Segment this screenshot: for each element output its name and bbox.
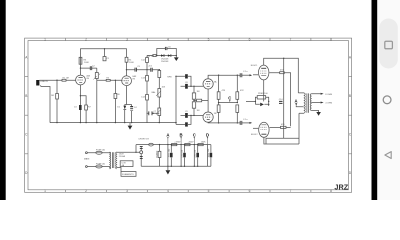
node V1 cathode: [80, 95, 81, 96]
svg-text:BLEED: BLEED: [156, 150, 158, 157]
svg-text:1N4148: 1N4148: [161, 61, 169, 63]
B+ rail top: [81, 49, 127, 58]
svg-text:1M: 1M: [51, 95, 54, 97]
wire mains: [87, 153, 109, 167]
diode D1 cathode: [123, 106, 126, 110]
wire to V2 grid: [97, 79, 123, 81]
capacitor C2 coupling: [90, 66, 91, 70]
cathode network box: [246, 97, 269, 106]
tube U2 EL84 lower: [259, 122, 269, 137]
wire coupling line stage2: [127, 69, 160, 71]
diode D4 cathode: [255, 103, 268, 105]
resistor R19 cathode: [257, 96, 266, 99]
capacitor C6 limiter bypass: [157, 49, 177, 56]
capacitor C8 grid coupling upper: [181, 85, 204, 87]
transformer T2 power primary: [109, 152, 112, 169]
phone right letterbox bar: [372, 0, 378, 200]
wire input to grid: [39, 79, 75, 81]
svg-text:B: B: [349, 94, 351, 98]
svg-text:FUSE 2A: FUSE 2A: [96, 162, 105, 165]
svg-text:LINE IN: LINE IN: [40, 81, 48, 83]
capacitor C3 cathode bypass: [79, 105, 82, 110]
resistor R5 V2 grid stopper: [106, 79, 110, 81]
capacitor C18 column: [146, 95, 149, 101]
net arrows under letters: [167, 137, 168, 139]
wire nfb return loop: [266, 138, 299, 144]
node B vertical: [180, 145, 182, 167]
wire transformer bottom: [298, 113, 300, 144]
svg-text:B: B: [180, 133, 183, 138]
capacitor C12 node A: [170, 153, 173, 158]
svg-text:160K: 160K: [201, 142, 206, 144]
capacitor C20 on lower nfb line: [176, 115, 191, 124]
resistor R14a right column upper: [236, 75, 238, 123]
cap leg D: [208, 145, 211, 167]
transformer T1 core: [307, 93, 309, 112]
mains terminal L: [86, 152, 88, 154]
svg-text:47u 450: 47u 450: [182, 149, 184, 157]
node input junction: [56, 80, 57, 81]
svg-text:250VA: 250VA: [119, 155, 126, 158]
capacitor C16 column: [146, 58, 149, 63]
potentiometer VR1 volume: [96, 68, 98, 80]
capacitor C11b: [140, 156, 143, 158]
node V2 anode: [126, 69, 127, 70]
node D vertical: [207, 145, 209, 167]
frame left ticks: [25, 77, 28, 154]
wire EL84 plate rail: [264, 58, 299, 93]
wire secondary to rectifier: [117, 151, 140, 153]
arrow 8 ohm tap: [321, 93, 324, 95]
cap leg C: [197, 145, 199, 167]
svg-text:1M: 1M: [197, 91, 200, 93]
ground symbol PSU: [167, 166, 169, 170]
frame outer border: [25, 38, 352, 192]
svg-text:JRZ: JRZ: [334, 183, 348, 192]
wire secondary taps: [311, 94, 320, 112]
transformer T1 secondary: [310, 94, 311, 111]
resistor R20 bleeder: [159, 145, 161, 167]
svg-text:CHGRT 1R: CHGRT 1R: [138, 139, 149, 141]
node C vertical: [193, 145, 195, 167]
svg-text:C: C: [193, 133, 196, 138]
resistor R2 grid leak: [56, 80, 58, 122]
phone nav bar background: [377, 0, 400, 200]
svg-text:22u 450: 22u 450: [195, 149, 197, 157]
rectifier column: [140, 146, 142, 166]
cap leg A: [170, 145, 172, 167]
net labels A B C D: [166, 133, 209, 138]
resistor R11c cathode bias: [193, 100, 194, 101]
nav pill highlight: [379, 19, 398, 69]
wire driver cathodes: [207, 89, 209, 112]
feedback column wire: [175, 76, 177, 124]
ground symbol secondary: [316, 112, 321, 116]
svg-text:100u 450: 100u 450: [208, 148, 210, 158]
node V1 anode: [80, 67, 81, 68]
svg-text:D: D: [206, 133, 209, 138]
wire screens: [269, 73, 290, 128]
capacitor C9 grid coupling lower: [181, 114, 204, 116]
svg-text:10K: 10K: [162, 86, 166, 88]
svg-text:230V: 230V: [119, 154, 124, 156]
nav home circle icon: [383, 96, 391, 104]
svg-text:6: 6: [249, 189, 251, 193]
resistor R17 screen upper: [280, 72, 285, 74]
tube V1 triode: [76, 75, 86, 85]
filaments label box: [121, 172, 136, 177]
svg-text:NFB: NFB: [167, 77, 172, 79]
node rail tap: [104, 48, 105, 49]
frame bottom ticks: [66, 190, 311, 193]
capacitor C13 node B: [183, 153, 186, 158]
frame zone numbers top: [44, 37, 332, 41]
wire coupling line stage1: [81, 67, 97, 69]
wire pot ground leg: [96, 80, 98, 122]
tube V2 triode: [122, 76, 132, 86]
node bus junctions: [56, 122, 57, 123]
svg-text:3: 3: [126, 189, 128, 193]
filament info box: [120, 161, 133, 167]
wire secondary filament: [117, 168, 121, 172]
choke L1: [149, 143, 154, 146]
ground bus preamp: [50, 122, 176, 124]
resistor R1 grid stopper: [62, 79, 66, 81]
capacitor C5b coupling: [151, 68, 152, 72]
frame top ticks: [66, 38, 311, 41]
svg-text:PRES 100: PRES 100: [258, 93, 269, 95]
tiny value labels: [40, 47, 332, 177]
frame zone letters left: [25, 56, 28, 176]
svg-text:EL84 2: EL84 2: [251, 134, 258, 136]
filter rail: [141, 145, 211, 167]
svg-text:2: 2: [85, 189, 87, 193]
wire V1 cathode network: [80, 85, 86, 123]
frame inner border: [28, 41, 349, 190]
transformer T1 output primary: [298, 93, 304, 113]
capacitor C7 tap: [147, 112, 160, 114]
diode limiter subcircuit: [147, 55, 176, 57]
svg-text:SAFE R: SAFE R: [147, 55, 155, 58]
ground symbol limiter: [175, 56, 177, 58]
nav recents square icon: [385, 41, 393, 49]
transformer T2 secondary: [115, 152, 118, 169]
wire jack sleeve down: [41, 85, 51, 122]
resistor R3 plate load V1: [79, 57, 82, 64]
limiter column wire: [146, 56, 148, 123]
frame right ticks: [349, 77, 352, 154]
svg-text:+330V: +330V: [174, 142, 181, 144]
svg-text:+320V: +320V: [188, 142, 195, 144]
svg-text:100K: 100K: [129, 62, 134, 64]
tube U1 EL84 upper: [259, 65, 269, 80]
svg-text:5: 5: [208, 189, 210, 193]
svg-text:7: 7: [290, 189, 292, 193]
node coupling to limiter column: [146, 69, 147, 70]
node plate line dots: [218, 75, 219, 76]
capacitor C21 coupling to upper EL84: [240, 73, 242, 77]
wire driver plates: [208, 75, 240, 123]
capacitor C15 node D: [210, 153, 213, 158]
svg-text:100u 400: 100u 400: [168, 148, 170, 158]
capacitor C14 node C: [196, 153, 199, 158]
wire cathode upper EL84: [263, 80, 265, 102]
svg-text:47K: 47K: [240, 90, 244, 92]
svg-text:MAIN: MAIN: [84, 157, 90, 160]
input jack J1: [36, 80, 39, 86]
capacitor C17 column: [146, 76, 149, 82]
node C supply wire: [219, 102, 238, 104]
svg-text:A: A: [166, 133, 169, 138]
svg-text:7: 7: [290, 37, 292, 41]
resistor R22 B-C: [185, 144, 190, 146]
svg-text:1M: 1M: [197, 110, 200, 112]
svg-text:5: 5: [208, 37, 210, 41]
svg-text:1: 1: [44, 37, 46, 41]
arrow 4 ohm tap: [321, 102, 324, 104]
node dots filter: [167, 144, 168, 145]
svg-text:8: 8: [330, 189, 332, 193]
node grid junctions: [193, 86, 194, 87]
frame zone numbers bottom: [44, 189, 332, 193]
svg-text:4 OHM: 4 OHM: [325, 103, 332, 105]
diode D2: [161, 54, 164, 56]
svg-text:100K: 100K: [84, 62, 89, 64]
wire rail start: [136, 145, 149, 153]
fuse F1: [96, 151, 102, 154]
tube V3 driver upper: [203, 79, 213, 89]
svg-text:6: 6: [249, 37, 251, 41]
resistor R13 plate load lower left: [217, 105, 220, 113]
svg-text:4: 4: [167, 37, 169, 41]
cap leg B: [184, 145, 186, 167]
fuse F2: [96, 165, 102, 168]
resistor R21 A-B: [172, 144, 177, 146]
nav back triangle icon: [385, 152, 391, 159]
trimmer VR2: [158, 89, 161, 98]
wire V1 anode up: [80, 57, 82, 75]
tube V4 driver lower: [203, 112, 213, 122]
resistor R12 plate load upper left: [218, 75, 220, 123]
capacitor C19 on upper nfb line: [176, 76, 191, 86]
svg-text:47K: 47K: [222, 90, 226, 92]
resistor R23 C-D: [198, 144, 203, 146]
resistor R14b right column lower: [236, 105, 239, 113]
svg-text:2: 2: [85, 37, 87, 41]
wire cathode lower EL84: [264, 138, 299, 145]
svg-text:C: C: [228, 96, 231, 101]
resistor R11a grid leak upper: [193, 86, 195, 93]
capacitor C4 cathode V2: [130, 107, 133, 109]
svg-text:8: 8: [330, 37, 332, 41]
trimmer VR3: [158, 108, 161, 116]
capacitor C22 coupling to lower EL84: [240, 121, 242, 125]
capacitor C5 coupling: [135, 68, 136, 72]
rectifier circle: [140, 151, 143, 154]
diode D3: [168, 54, 171, 56]
wire V2 cathode: [125, 86, 132, 123]
transformer T2 core: [112, 152, 113, 168]
resistor R11b grid leak lower: [193, 99, 195, 115]
resistor R6 V2 grid leak: [114, 80, 116, 122]
svg-text:B: B: [25, 94, 27, 98]
svg-text:FILAMENTS: FILAMENTS: [122, 173, 134, 176]
ground symbol main: [129, 123, 131, 126]
resistor R7 cathode: [85, 105, 88, 110]
svg-text:A: A: [294, 98, 297, 103]
resistor R9 limiter: [153, 55, 156, 57]
mains terminal N: [86, 166, 88, 168]
svg-text:4: 4: [167, 189, 169, 193]
capacitor C10 on B+ line: [279, 101, 283, 103]
node A vertical: [167, 145, 169, 167]
resistor R18 screen lower: [281, 126, 287, 128]
svg-text:8 OHM: 8 OHM: [325, 94, 332, 96]
svg-text:EL84 1: EL84 1: [251, 65, 258, 67]
capacitor C1 rail decoupling: [104, 49, 106, 57]
svg-text:3: 3: [126, 37, 128, 41]
frame zone letters right: [349, 56, 352, 176]
svg-text:1: 1: [44, 189, 46, 193]
svg-text:FUSE 2A: FUSE 2A: [96, 149, 105, 152]
resistor R10: [159, 69, 160, 70]
svg-text:R1 1M: R1 1M: [63, 78, 69, 80]
wire B+ drop line: [283, 58, 285, 138]
resistor R4 plate load V2: [125, 57, 128, 62]
phone left letterbox bar: [0, 0, 6, 200]
node V2 grid: [115, 80, 116, 81]
capacitor C11a: [140, 147, 143, 149]
